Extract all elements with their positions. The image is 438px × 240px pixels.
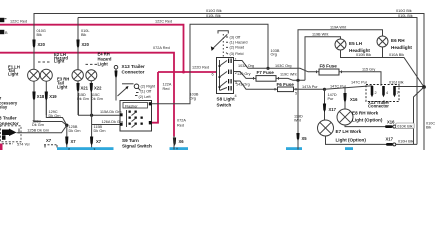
svg-text:5: 5 — [295, 92, 297, 96]
svg-text:(2) Left: (2) Left — [139, 95, 152, 99]
svg-text:Flasher: Flasher — [125, 104, 138, 108]
svg-text:A: A — [176, 147, 178, 151]
svg-text:574 Yel: 574 Yel — [17, 142, 30, 146]
svg-text:6: 6 — [212, 73, 214, 77]
svg-text:Dk Grn: Dk Grn — [69, 129, 81, 133]
svg-text:E6 RH: E6 RH — [391, 38, 405, 43]
svg-text:3 Trailer: 3 Trailer — [0, 116, 17, 121]
svg-text:072A Red: 072A Red — [153, 46, 170, 50]
svg-text:X21: X21 — [81, 85, 89, 90]
svg-text:4: 4 — [235, 94, 237, 98]
svg-text:S9 Turn: S9 Turn — [122, 138, 139, 143]
svg-text:X19: X19 — [49, 94, 57, 99]
svg-text:X20: X20 — [82, 42, 90, 47]
svg-text:(1) Off: (1) Off — [141, 90, 153, 94]
svg-text:103C Org: 103C Org — [275, 64, 291, 68]
svg-text:Dk Grn: Dk Grn — [91, 97, 103, 101]
svg-text:Dk Grn: Dk Grn — [94, 129, 106, 133]
svg-text:X16: X16 — [387, 120, 395, 125]
svg-text:Light: Light — [98, 62, 109, 67]
svg-text:072A: 072A — [177, 119, 186, 123]
svg-text:S8 Light: S8 Light — [217, 96, 236, 101]
svg-text:122C Red: 122C Red — [155, 20, 172, 24]
svg-text:010L Blk: 010L Blk — [206, 14, 221, 18]
svg-text:Connector: Connector — [122, 70, 145, 75]
svg-text:119C Wht: 119C Wht — [280, 73, 298, 77]
svg-text:F7 Fuse: F7 Fuse — [257, 70, 275, 75]
svg-text:125B Dk Grn: 125B Dk Grn — [27, 129, 49, 133]
svg-text:010G Blk: 010G Blk — [396, 9, 412, 13]
svg-text:(3) Off: (3) Off — [230, 35, 242, 39]
svg-text:122C Red: 122C Red — [10, 20, 27, 24]
svg-text:147A Pur: 147A Pur — [302, 85, 318, 89]
svg-text:E5 LH: E5 LH — [349, 41, 363, 46]
svg-text:010G Blk: 010G Blk — [206, 9, 222, 13]
svg-text:X17: X17 — [329, 107, 337, 112]
svg-text:(2) Right: (2) Right — [141, 85, 157, 89]
svg-text:122D Red: 122D Red — [192, 65, 209, 69]
svg-text:Blk: Blk — [426, 126, 431, 130]
svg-text:X17: X17 — [386, 136, 394, 141]
svg-text:Light: Light — [8, 71, 19, 76]
svg-text:119A Wht: 119A Wht — [330, 25, 347, 29]
svg-text:onnector: onnector — [0, 121, 19, 126]
svg-text:Light: Light — [57, 84, 68, 89]
svg-text:Pur: Pur — [328, 97, 335, 101]
svg-text:X20: X20 — [38, 42, 46, 47]
svg-text:Light (Option): Light (Option) — [352, 118, 383, 123]
svg-text:130 Gry: 130 Gry — [237, 72, 251, 76]
svg-text:Switch: Switch — [217, 103, 232, 108]
svg-text:4: 4 — [386, 91, 388, 95]
svg-text:Org: Org — [271, 53, 277, 57]
svg-text:(1) Hazard: (1) Hazard — [230, 41, 248, 45]
svg-text:119B Wht: 119B Wht — [312, 33, 329, 37]
svg-text:010H Blk: 010H Blk — [398, 140, 414, 144]
svg-text:Dk Grn: Dk Grn — [32, 123, 44, 127]
svg-text:X7: X7 — [46, 138, 52, 143]
svg-text:2: 2 — [375, 91, 377, 95]
svg-text:Connector: Connector — [368, 104, 389, 109]
svg-text:X7: X7 — [71, 139, 77, 144]
svg-text:X13 Trailer: X13 Trailer — [122, 64, 145, 69]
svg-text:E7 LH Work: E7 LH Work — [336, 129, 362, 134]
svg-text:E8 RH Work: E8 RH Work — [352, 110, 379, 115]
svg-text:X6: X6 — [179, 139, 185, 144]
svg-text:elay: elay — [0, 105, 8, 110]
svg-text:F6 Fuse: F6 Fuse — [277, 82, 295, 87]
svg-text:010K Blk: 010K Blk — [397, 124, 412, 128]
svg-text:010A Blk: 010A Blk — [389, 53, 404, 57]
svg-text:F8 Fuse: F8 Fuse — [320, 64, 338, 69]
svg-text:7: 7 — [397, 91, 399, 95]
svg-text:Org: Org — [190, 96, 196, 100]
svg-text:Wht: Wht — [294, 118, 302, 122]
svg-text:115A Dk Grn: 115A Dk Grn — [100, 110, 121, 114]
svg-text:X5: X5 — [302, 136, 308, 141]
svg-text:Signal Switch: Signal Switch — [122, 144, 152, 149]
svg-text:(3) Field: (3) Field — [230, 52, 244, 56]
svg-text:010B Blk: 010B Blk — [356, 53, 371, 57]
svg-text:Blk: Blk — [81, 33, 86, 37]
svg-text:010L Blk: 010L Blk — [398, 14, 413, 18]
svg-text:(2) Road: (2) Road — [230, 46, 245, 50]
svg-text:010J Blk: 010J Blk — [389, 81, 404, 85]
svg-text:Light: Light — [54, 59, 65, 64]
svg-text:X7: X7 — [96, 139, 102, 144]
svg-text:Blk: Blk — [37, 33, 42, 37]
svg-text:Headlight: Headlight — [391, 45, 412, 50]
svg-text:Red: Red — [177, 123, 184, 127]
svg-text:Red: Red — [163, 87, 170, 91]
svg-text:X22: X22 — [94, 85, 102, 90]
svg-text:143 Org: 143 Org — [236, 82, 250, 86]
svg-text:122A: 122A — [163, 83, 172, 87]
svg-text:Light (Option): Light (Option) — [336, 138, 367, 143]
svg-text:147C Pur: 147C Pur — [351, 80, 368, 84]
svg-text:X18: X18 — [37, 94, 45, 99]
svg-text:147C Pur: 147C Pur — [330, 85, 347, 89]
svg-text:115 Gry: 115 Gry — [362, 68, 375, 72]
svg-text:X16: X16 — [350, 97, 358, 102]
svg-text:103A Org: 103A Org — [238, 64, 254, 68]
